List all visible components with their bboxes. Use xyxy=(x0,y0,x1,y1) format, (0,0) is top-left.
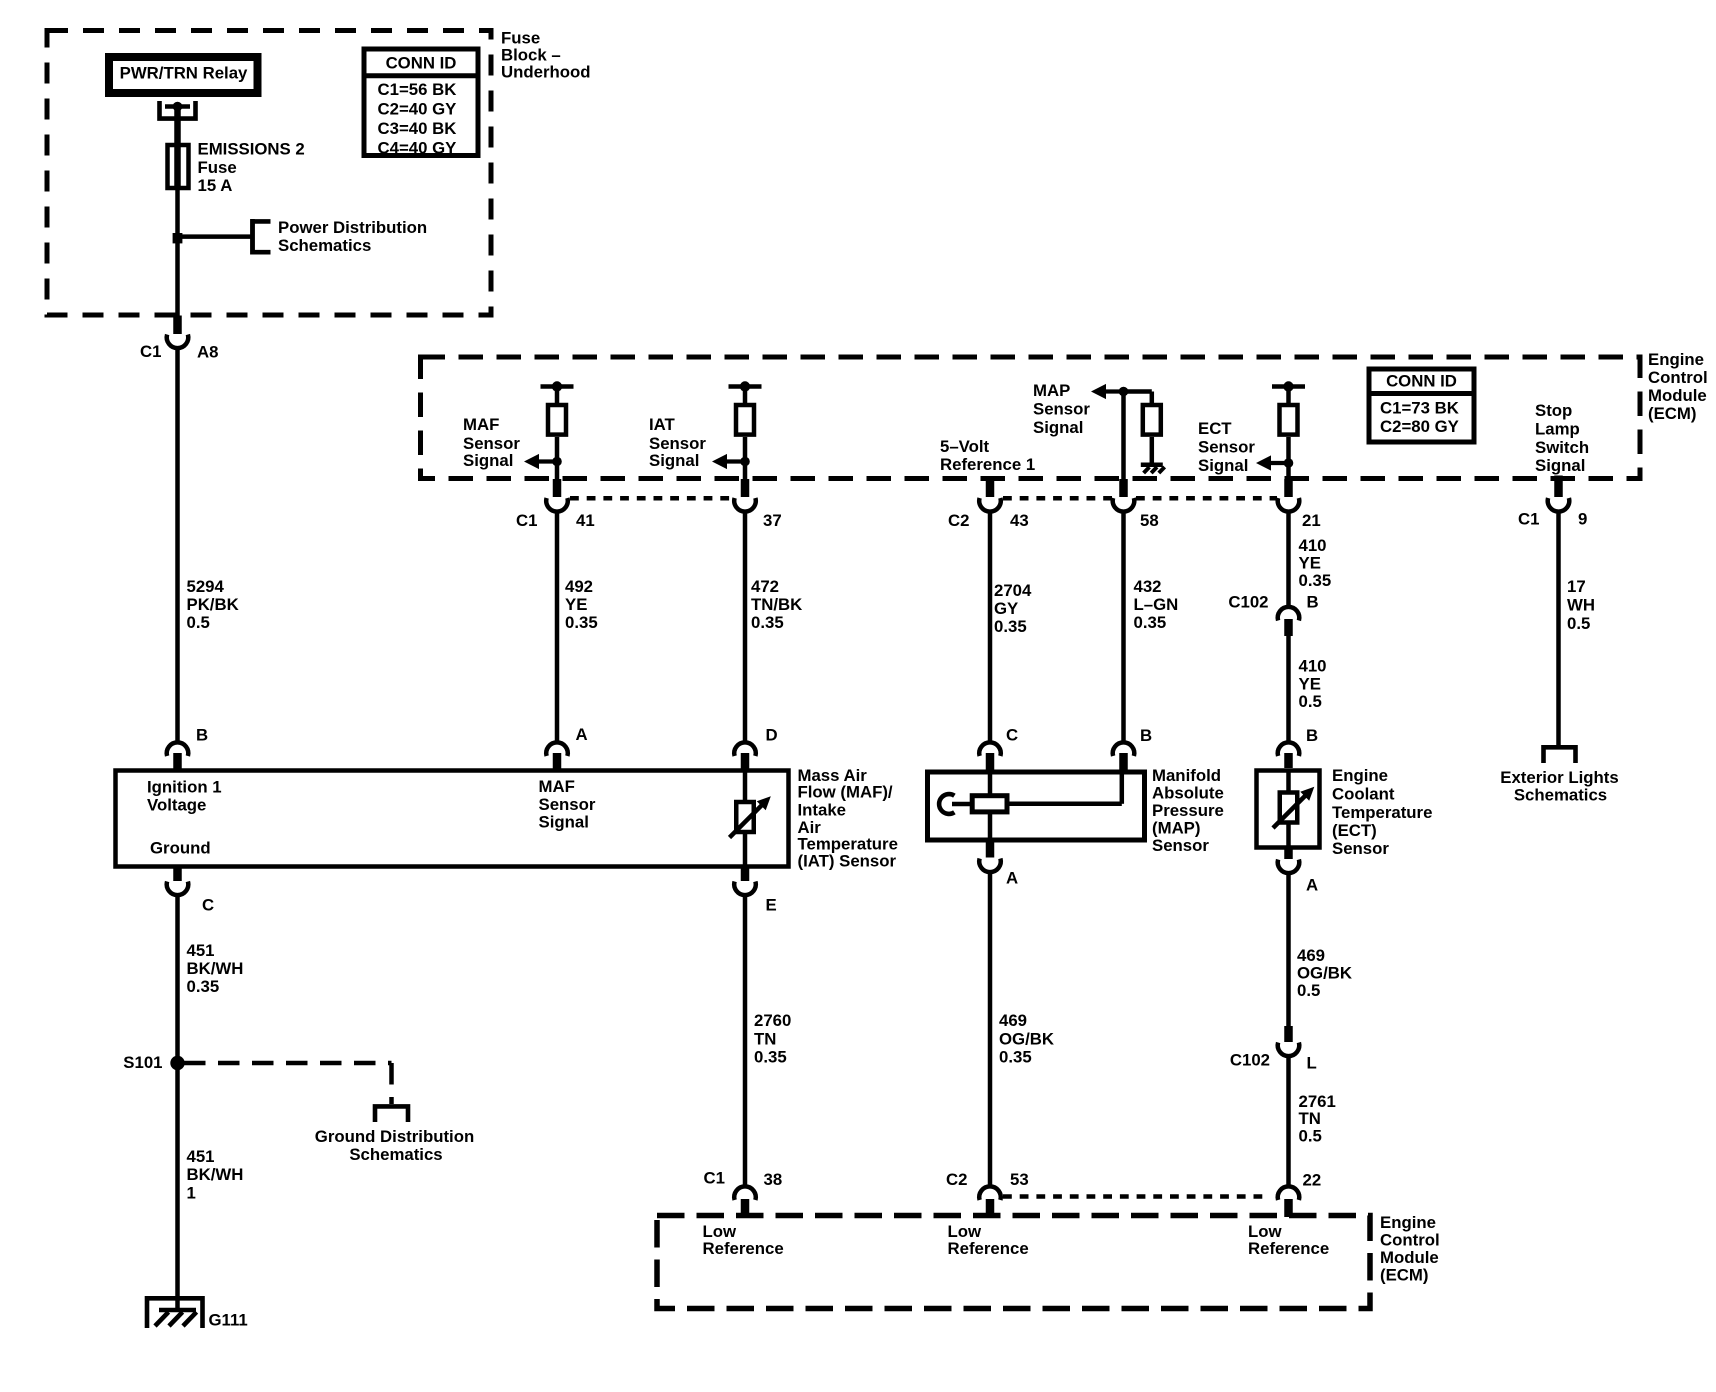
svg-text:0.35: 0.35 xyxy=(754,1048,787,1067)
thermistor ECT xyxy=(1280,793,1298,823)
svg-text:A: A xyxy=(1006,869,1018,888)
svg-text:Exterior Lights: Exterior Lights xyxy=(1500,768,1618,787)
svg-text:Temperature: Temperature xyxy=(1332,803,1432,822)
svg-text:Stop: Stop xyxy=(1535,401,1572,420)
svg-text:A: A xyxy=(576,725,588,744)
svg-text:B: B xyxy=(196,726,208,745)
svg-text:C102: C102 xyxy=(1228,593,1268,612)
svg-text:0.5: 0.5 xyxy=(1567,614,1590,633)
svg-text:A: A xyxy=(1306,876,1318,895)
off-page reference Power Distribution Schematics xyxy=(253,221,271,252)
svg-text:TN: TN xyxy=(754,1030,776,1049)
svg-text:A8: A8 xyxy=(197,343,218,362)
wire IAT pin D to thermistor xyxy=(743,770,748,801)
svg-text:0.35: 0.35 xyxy=(1299,571,1332,590)
svg-text:CONN ID: CONN ID xyxy=(386,54,457,73)
connector MAF pin B xyxy=(167,742,189,756)
svg-text:1: 1 xyxy=(187,1184,196,1203)
svg-text:Manifold: Manifold xyxy=(1152,766,1221,785)
wire 410 YE 0.5 xyxy=(1286,634,1291,742)
svg-text:Sensor: Sensor xyxy=(539,795,596,814)
svg-text:Signal: Signal xyxy=(463,451,513,470)
svg-text:(ECM): (ECM) xyxy=(1380,1266,1428,1285)
connector C1 pin A8 xyxy=(173,316,182,335)
svg-text:432: 432 xyxy=(1134,577,1162,596)
svg-text:C1=73 BK: C1=73 BK xyxy=(1380,399,1459,418)
arrow ECT sensor signal xyxy=(1269,461,1289,465)
svg-text:Schematics: Schematics xyxy=(349,1145,442,1164)
wire 492 YE 0.35 xyxy=(555,513,560,743)
svg-text:Schematics: Schematics xyxy=(1514,786,1607,805)
connector MAF pin C xyxy=(173,866,182,881)
wire resistor to ground xyxy=(1150,437,1155,463)
wire 5294 PK/BK 0.5 xyxy=(175,348,180,742)
svg-text:C1: C1 xyxy=(1518,510,1539,529)
connector C102 pin L xyxy=(1284,1026,1293,1042)
svg-text:IAT: IAT xyxy=(649,415,676,434)
connector C1 pin 37 xyxy=(741,479,750,497)
svg-text:410: 410 xyxy=(1299,536,1327,555)
wire MAP signal to connector 58 xyxy=(1121,392,1126,482)
node IAT sensor signal junction xyxy=(740,457,750,467)
svg-text:469: 469 xyxy=(999,1011,1027,1030)
svg-text:Signal: Signal xyxy=(1033,418,1083,437)
svg-text:15 A: 15 A xyxy=(198,176,233,195)
svg-text:(IAT) Sensor: (IAT) Sensor xyxy=(798,852,897,871)
resistor ECT pull-up xyxy=(1280,405,1298,435)
splice S101 xyxy=(170,1056,184,1070)
fuse EMISSIONS 2 15A xyxy=(168,145,189,188)
relay output terminal cup xyxy=(160,101,196,119)
connector ECT pin A xyxy=(1284,848,1293,860)
svg-text:B: B xyxy=(1140,726,1152,745)
resistor MAP pull-down xyxy=(1143,405,1161,435)
svg-text:Lamp: Lamp xyxy=(1535,420,1580,439)
ECM top dashed box xyxy=(421,357,1641,479)
svg-text:YE: YE xyxy=(1299,554,1321,573)
svg-text:YE: YE xyxy=(1299,675,1321,694)
supply rail tee for MAF pull-up xyxy=(541,384,574,389)
svg-text:GY: GY xyxy=(994,599,1018,618)
svg-text:(MAP): (MAP) xyxy=(1152,819,1200,838)
svg-text:451: 451 xyxy=(187,1147,215,1166)
off-page reference Ground Distribution Schematics xyxy=(375,1106,408,1122)
svg-text:Ignition 1: Ignition 1 xyxy=(147,778,222,797)
node MAP sensor signal junction xyxy=(1119,387,1129,397)
svg-text:Signal: Signal xyxy=(539,813,589,832)
svg-text:EMISSIONS 2: EMISSIONS 2 xyxy=(198,140,305,159)
wire 432 L-GN 0.35 xyxy=(1121,513,1126,743)
svg-text:C1: C1 xyxy=(704,1169,725,1188)
svg-text:E: E xyxy=(766,896,777,915)
arrow MAF sensor signal xyxy=(537,459,557,463)
resistor IAT pull-up xyxy=(736,405,754,435)
svg-text:L: L xyxy=(1307,1054,1317,1073)
svg-text:Switch: Switch xyxy=(1535,438,1589,457)
svg-text:C2=80 GY: C2=80 GY xyxy=(1380,417,1459,436)
svg-text:Signal: Signal xyxy=(1198,456,1248,475)
wire 472 TN/BK 0.35 xyxy=(743,513,748,743)
svg-text:YE: YE xyxy=(565,595,587,614)
MAP sensor box xyxy=(928,772,1145,840)
wire 2704 GY 0.35 xyxy=(988,513,993,743)
svg-text:58: 58 xyxy=(1140,511,1159,530)
svg-text:WH: WH xyxy=(1567,596,1595,615)
off-page reference Exterior Lights Schematics xyxy=(1544,747,1576,763)
svg-text:2704: 2704 xyxy=(994,581,1032,600)
connector C1 pin 41 xyxy=(553,479,562,497)
wire rail to resistor xyxy=(555,387,560,405)
svg-text:D: D xyxy=(766,726,778,745)
svg-text:Sensor: Sensor xyxy=(1033,400,1090,419)
svg-text:Fuse: Fuse xyxy=(198,158,237,177)
svg-text:C2=40 GY: C2=40 GY xyxy=(378,100,457,119)
svg-text:0.35: 0.35 xyxy=(187,977,220,996)
svg-text:MAP: MAP xyxy=(1033,381,1070,400)
arrow IAT sensor signal xyxy=(725,459,745,463)
wire 410 YE 0.35 xyxy=(1286,513,1291,608)
wire to power distribution reference xyxy=(178,234,253,239)
wire resistor to connector 37 xyxy=(743,437,748,481)
svg-text:Flow (MAF)/: Flow (MAF)/ xyxy=(798,783,893,802)
svg-text:Module: Module xyxy=(1648,386,1707,405)
svg-text:C1: C1 xyxy=(140,342,161,361)
table CONN ID ECM xyxy=(1369,369,1474,442)
connector C2 pin 21 xyxy=(1284,479,1293,497)
relay PWR/TRN Relay xyxy=(109,57,258,93)
svg-text:53: 53 xyxy=(1010,1170,1029,1189)
wire ECT pin B to thermistor xyxy=(1286,770,1291,792)
svg-text:B: B xyxy=(1307,593,1319,612)
svg-text:0.5: 0.5 xyxy=(1297,981,1320,1000)
svg-text:Voltage: Voltage xyxy=(147,796,206,815)
junction to power distribution xyxy=(173,233,183,243)
svg-text:TN/BK: TN/BK xyxy=(751,595,802,614)
svg-text:38: 38 xyxy=(764,1170,783,1189)
svg-text:MAF: MAF xyxy=(463,415,499,434)
svg-text:Schematics: Schematics xyxy=(278,236,371,255)
svg-text:410: 410 xyxy=(1299,657,1327,676)
svg-text:469: 469 xyxy=(1297,946,1325,965)
svg-text:0.5: 0.5 xyxy=(1299,1127,1322,1146)
svg-text:0.35: 0.35 xyxy=(999,1048,1032,1067)
svg-text:0.35: 0.35 xyxy=(751,613,784,632)
svg-text:OG/BK: OG/BK xyxy=(1297,964,1352,983)
wire rail to resistor xyxy=(743,387,748,405)
svg-text:Engine: Engine xyxy=(1332,766,1388,785)
svg-text:0.5: 0.5 xyxy=(187,613,210,632)
connector MAP pin A xyxy=(986,840,995,858)
svg-text:472: 472 xyxy=(751,577,779,596)
svg-text:(ECM): (ECM) xyxy=(1648,404,1696,423)
ECM bottom dashed box xyxy=(657,1216,1370,1309)
svg-text:2760: 2760 xyxy=(754,1011,791,1030)
svg-text:L–GN: L–GN xyxy=(1134,595,1179,614)
svg-text:17: 17 xyxy=(1567,577,1586,596)
svg-text:Coolant: Coolant xyxy=(1332,785,1395,804)
connector C102 pin B xyxy=(1278,607,1300,621)
node MAF sensor signal junction xyxy=(552,457,562,467)
svg-text:43: 43 xyxy=(1010,511,1029,530)
connector C1 pin 38 xyxy=(734,1186,756,1200)
svg-text:Module: Module xyxy=(1380,1248,1439,1267)
connector MAF pin E xyxy=(741,866,750,881)
supply rail tee for IAT pull-up xyxy=(729,384,762,389)
svg-text:Control: Control xyxy=(1648,368,1708,387)
connector MAP pin B xyxy=(1113,742,1135,756)
svg-text:Engine: Engine xyxy=(1380,1213,1436,1232)
fuse block underhood dashed box xyxy=(47,31,491,316)
connector C2 pin 58 xyxy=(1119,479,1128,497)
svg-text:C2: C2 xyxy=(946,1170,967,1189)
svg-text:C102: C102 xyxy=(1230,1051,1270,1070)
svg-text:0.35: 0.35 xyxy=(1134,613,1167,632)
connector line C2 dotted bottom xyxy=(1003,1194,1266,1199)
svg-text:Ground: Ground xyxy=(150,839,211,858)
svg-text:C: C xyxy=(202,896,214,915)
svg-text:0.35: 0.35 xyxy=(565,613,598,632)
svg-text:0.35: 0.35 xyxy=(994,617,1027,636)
wire resistor to connector 21 xyxy=(1286,437,1291,481)
connector line C2 dotted xyxy=(1003,496,1112,501)
svg-text:Reference: Reference xyxy=(1248,1239,1329,1258)
svg-text:21: 21 xyxy=(1302,511,1321,530)
svg-text:Absolute: Absolute xyxy=(1152,784,1224,803)
wire dashed to ground distribution xyxy=(184,1061,392,1066)
svg-text:Sensor: Sensor xyxy=(1332,839,1389,858)
table CONN ID fuse block xyxy=(364,49,478,156)
svg-text:37: 37 xyxy=(763,511,782,530)
MAF/IAT sensor box xyxy=(116,771,789,867)
svg-text:C3=40 BK: C3=40 BK xyxy=(378,119,457,138)
connector MAF pin A xyxy=(546,742,568,756)
wire thermistor to pin E xyxy=(743,833,748,866)
wire 469 OG/BK 0.5 xyxy=(1286,874,1291,1027)
svg-text:Reference: Reference xyxy=(948,1239,1029,1258)
wire 451 BK/WH 1 xyxy=(175,1063,180,1310)
connector MAP pin C xyxy=(979,742,1001,756)
svg-text:9: 9 xyxy=(1578,510,1587,529)
ground G111 xyxy=(147,1298,203,1328)
svg-text:Signal: Signal xyxy=(1535,456,1585,475)
pressure transducer element xyxy=(939,794,954,814)
connector MAF pin D xyxy=(734,742,756,756)
connector C2 pin 22 xyxy=(1278,1186,1300,1200)
connector C2 pin 43 xyxy=(986,478,995,497)
svg-text:G111: G111 xyxy=(209,1311,248,1330)
wire rail to resistor xyxy=(1286,387,1291,405)
connector ECT pin B xyxy=(1278,742,1300,756)
svg-text:(ECT): (ECT) xyxy=(1332,821,1377,840)
svg-text:PWR/TRN Relay: PWR/TRN Relay xyxy=(120,64,248,83)
svg-text:Signal: Signal xyxy=(649,451,699,470)
svg-text:BK/WH: BK/WH xyxy=(187,1165,244,1184)
connector line C1 dotted xyxy=(570,496,733,501)
svg-text:BK/WH: BK/WH xyxy=(187,959,244,978)
svg-text:PK/BK: PK/BK xyxy=(187,595,239,614)
svg-text:Ground Distribution: Ground Distribution xyxy=(315,1127,474,1146)
svg-text:B: B xyxy=(1306,726,1318,745)
svg-text:0.5: 0.5 xyxy=(1299,692,1322,711)
svg-text:OG/BK: OG/BK xyxy=(999,1030,1054,1049)
wire 2761 TN 0.5 xyxy=(1286,1057,1291,1188)
wire transducer to pin B xyxy=(1007,802,1122,807)
svg-text:C1=56 BK: C1=56 BK xyxy=(378,80,457,99)
svg-text:CONN ID: CONN ID xyxy=(1386,372,1457,391)
connector C2 pin 53 xyxy=(979,1186,1001,1200)
arrow MAP sensor signal xyxy=(1104,389,1124,393)
wire 17 WH 0.5 xyxy=(1556,511,1561,748)
thermistor IAT xyxy=(736,802,754,832)
resistor MAF pull-up xyxy=(548,405,566,435)
svg-text:C1: C1 xyxy=(516,511,537,530)
svg-text:C: C xyxy=(1006,726,1018,745)
wire 2760 TN 0.35 xyxy=(743,896,748,1187)
wire 469 OG/BK 0.35 xyxy=(988,873,993,1187)
svg-text:5294: 5294 xyxy=(187,577,225,596)
svg-text:Reference: Reference xyxy=(703,1239,784,1258)
svg-text:TN: TN xyxy=(1299,1109,1321,1128)
svg-text:Reference 1: Reference 1 xyxy=(940,455,1035,474)
svg-text:22: 22 xyxy=(1303,1171,1322,1190)
svg-text:S101: S101 xyxy=(123,1053,162,1072)
svg-text:Intake: Intake xyxy=(798,801,847,820)
svg-text:Pressure: Pressure xyxy=(1152,801,1224,820)
wire thermistor to pin A xyxy=(1286,824,1291,848)
wire MAP pin C through transducer xyxy=(988,772,993,796)
svg-text:Engine: Engine xyxy=(1648,350,1704,369)
ECT sensor box xyxy=(1257,771,1320,848)
svg-text:451: 451 xyxy=(187,941,215,960)
node ECT sensor signal junction xyxy=(1284,458,1294,468)
svg-text:Control: Control xyxy=(1380,1231,1440,1250)
svg-text:ECT: ECT xyxy=(1198,419,1232,438)
wire resistor to connector 41 xyxy=(555,437,560,481)
svg-text:Power Distribution: Power Distribution xyxy=(278,218,427,237)
wire relay to fuse xyxy=(174,108,181,190)
supply rail tee for ECT pull-up xyxy=(1272,384,1305,389)
svg-text:Sensor: Sensor xyxy=(1152,836,1209,855)
ground internal ECM xyxy=(1141,462,1163,467)
wire 451 BK/WH 0.35 xyxy=(175,896,180,1063)
svg-text:C4=40 GY: C4=40 GY xyxy=(378,138,457,157)
wire junction to MAP pull-down resistor xyxy=(1124,389,1152,394)
svg-text:MAF: MAF xyxy=(539,777,575,796)
svg-text:C2: C2 xyxy=(948,511,969,530)
svg-text:5–Volt: 5–Volt xyxy=(940,437,990,456)
wire fuse to connector C1-A8 xyxy=(175,190,180,316)
svg-text:492: 492 xyxy=(565,577,593,596)
svg-text:Underhood: Underhood xyxy=(501,63,591,82)
svg-text:41: 41 xyxy=(576,511,595,530)
svg-text:Sensor: Sensor xyxy=(1198,438,1255,457)
connector C1 pin 9 xyxy=(1554,476,1563,498)
